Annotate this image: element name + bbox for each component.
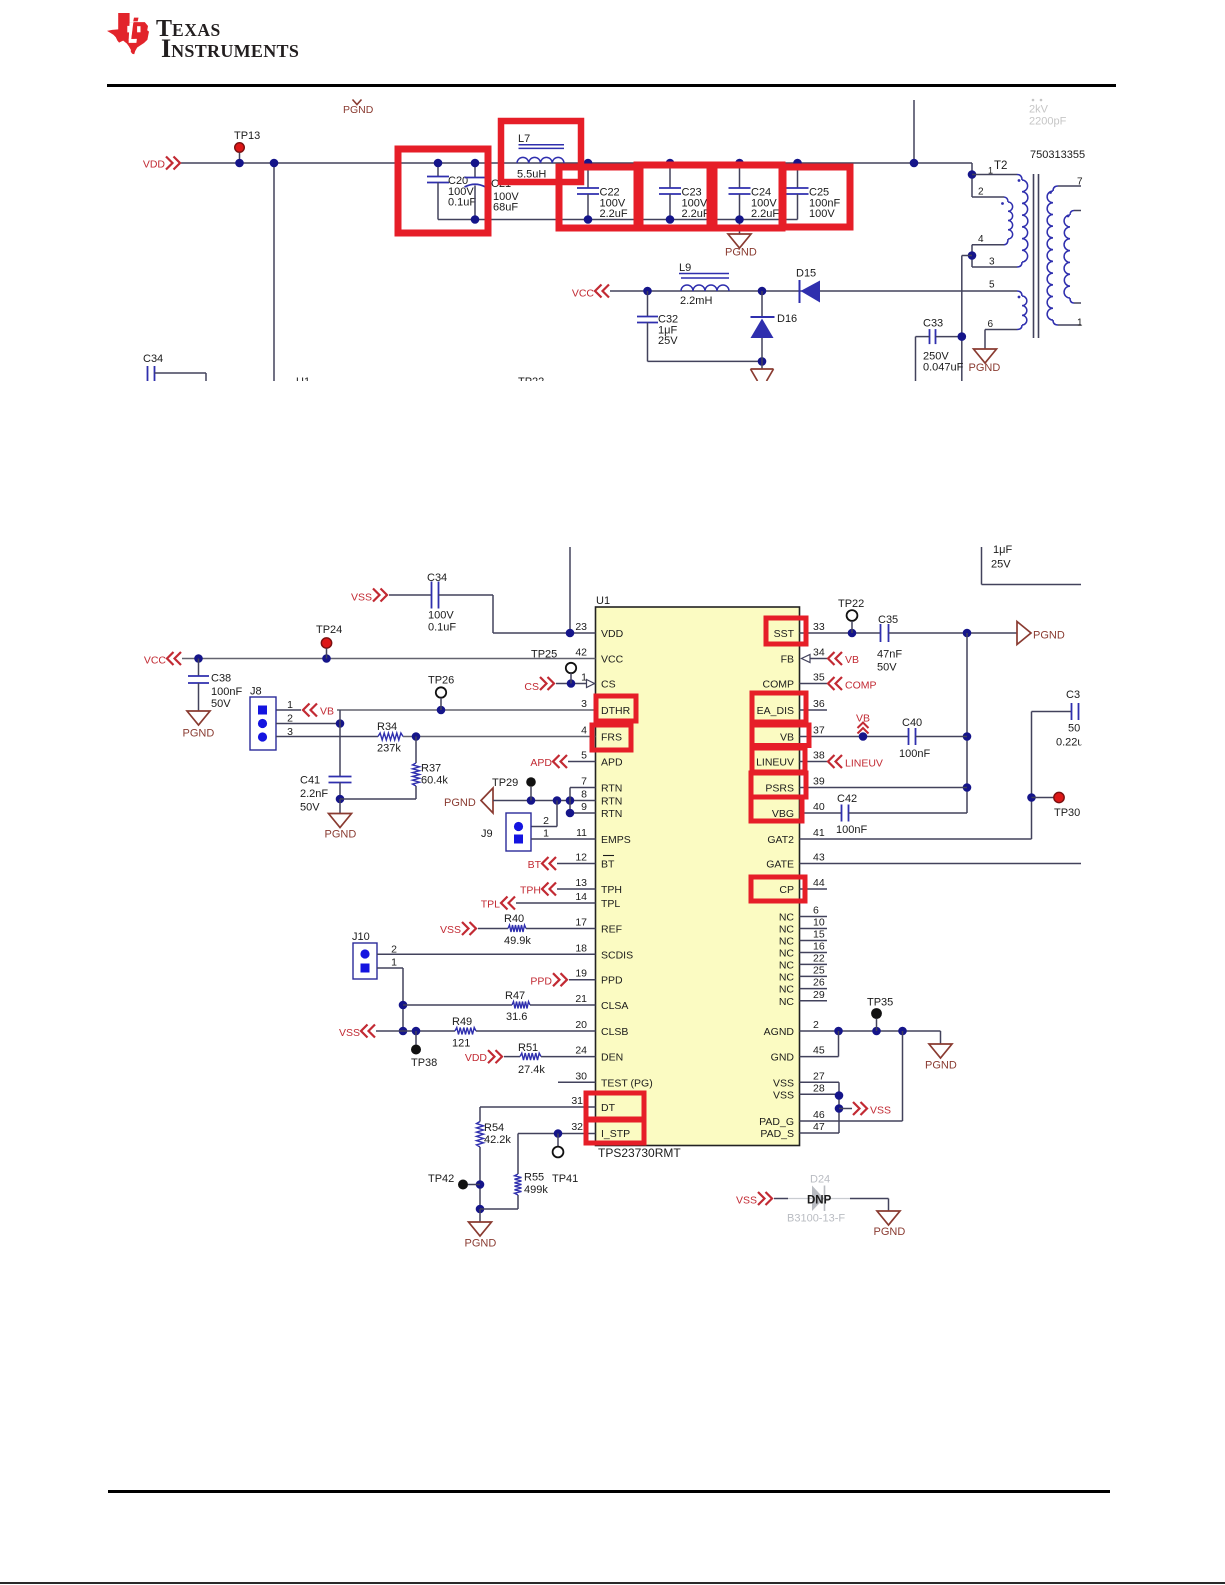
svg-text:45: 45 — [813, 1045, 825, 1057]
svg-text:24: 24 — [575, 1045, 587, 1057]
svg-text:J9: J9 — [481, 828, 493, 840]
svg-text:D16: D16 — [777, 313, 797, 325]
svg-text:NC: NC — [779, 948, 795, 960]
svg-text:100V: 100V — [809, 208, 835, 220]
svg-text:PSRS: PSRS — [765, 783, 794, 795]
svg-text:5: 5 — [989, 280, 995, 291]
svg-text:26: 26 — [813, 977, 825, 989]
svg-text:EA_DIS: EA_DIS — [757, 705, 794, 717]
svg-text:LINEUV: LINEUV — [756, 757, 794, 769]
svg-text:VSS: VSS — [773, 1077, 794, 1089]
svg-text:D15: D15 — [796, 268, 816, 280]
svg-text:PGND: PGND — [874, 1226, 906, 1238]
svg-text:TEST (PG): TEST (PG) — [601, 1077, 653, 1089]
svg-text:VSS: VSS — [736, 1195, 757, 1207]
svg-text:21: 21 — [575, 993, 587, 1005]
svg-text:30: 30 — [575, 1070, 587, 1082]
svg-text:TP38: TP38 — [411, 1057, 437, 1069]
svg-text:TP29: TP29 — [492, 777, 518, 789]
svg-text:GATE: GATE — [766, 859, 794, 871]
svg-text:PGND: PGND — [1033, 630, 1065, 642]
svg-text:CS: CS — [601, 679, 616, 691]
svg-text:2: 2 — [543, 815, 549, 827]
svg-text:R49: R49 — [452, 1016, 472, 1028]
svg-text:R55: R55 — [524, 1172, 544, 1184]
svg-text:44: 44 — [813, 877, 825, 889]
svg-text:C42: C42 — [837, 793, 857, 805]
svg-text:U1: U1 — [296, 376, 310, 388]
svg-text:35: 35 — [813, 672, 825, 684]
svg-text:100nF: 100nF — [836, 824, 867, 836]
svg-text:VCC: VCC — [572, 288, 595, 300]
svg-text:50V: 50V — [877, 662, 897, 674]
svg-text:2.2mH: 2.2mH — [680, 295, 712, 307]
svg-text:NC: NC — [779, 936, 795, 948]
svg-text:RTN: RTN — [601, 783, 622, 795]
svg-text:2.2nF: 2.2nF — [300, 788, 328, 800]
svg-text:R51: R51 — [518, 1042, 538, 1054]
svg-text:C3: C3 — [1066, 689, 1080, 701]
svg-text:23: 23 — [575, 621, 587, 633]
svg-text:TPL: TPL — [481, 899, 500, 911]
svg-text:499k: 499k — [524, 1184, 548, 1196]
svg-text:VSS: VSS — [773, 1089, 794, 1101]
svg-text:TPS23730RMT: TPS23730RMT — [598, 1146, 681, 1160]
svg-text:D24: D24 — [810, 1174, 830, 1186]
svg-text:4: 4 — [581, 725, 587, 737]
svg-text:29: 29 — [813, 989, 825, 1001]
svg-text:27.4k: 27.4k — [518, 1064, 545, 1076]
svg-text:EMPS: EMPS — [601, 834, 631, 846]
svg-text:C40: C40 — [902, 717, 922, 729]
svg-text:0.22u: 0.22u — [1056, 737, 1084, 749]
svg-text:TP22: TP22 — [518, 376, 544, 388]
svg-text:TP42: TP42 — [428, 1173, 454, 1185]
svg-text:VSS: VSS — [870, 1105, 891, 1117]
svg-text:TP25: TP25 — [531, 649, 557, 661]
svg-text:2.2uF: 2.2uF — [751, 208, 779, 220]
svg-text:C34: C34 — [427, 572, 447, 584]
svg-text:R37: R37 — [421, 763, 441, 775]
svg-text:TPH: TPH — [520, 885, 541, 897]
svg-text:2.2uF: 2.2uF — [682, 208, 710, 220]
svg-text:VSS: VSS — [440, 924, 461, 936]
svg-text:PPD: PPD — [530, 976, 552, 988]
svg-text:6: 6 — [813, 905, 819, 917]
svg-text:41: 41 — [813, 827, 825, 839]
svg-text:BT: BT — [601, 859, 615, 871]
svg-text:FB: FB — [781, 654, 794, 666]
svg-text:COMP: COMP — [845, 680, 877, 692]
svg-text:42.2k: 42.2k — [484, 1134, 511, 1146]
svg-text:VDD: VDD — [601, 628, 624, 640]
svg-text:68uF: 68uF — [493, 202, 518, 214]
svg-text:REF: REF — [601, 924, 622, 936]
svg-text:5: 5 — [581, 750, 587, 762]
svg-text:C33: C33 — [923, 318, 943, 330]
svg-text:COMP: COMP — [763, 679, 795, 691]
svg-text:42: 42 — [575, 647, 587, 659]
svg-text:U1: U1 — [596, 595, 610, 607]
svg-text:39: 39 — [813, 776, 825, 788]
svg-text:50V: 50V — [300, 802, 320, 814]
svg-text:2: 2 — [813, 1019, 819, 1031]
svg-text:TP24: TP24 — [316, 624, 342, 636]
svg-text:2: 2 — [287, 713, 293, 725]
svg-text:TPL: TPL — [601, 898, 620, 910]
svg-text:22: 22 — [813, 952, 825, 964]
svg-text:I_STP: I_STP — [601, 1128, 630, 1140]
svg-text:C41: C41 — [300, 775, 320, 787]
svg-text:PAD_G: PAD_G — [759, 1116, 794, 1128]
svg-text:VDD: VDD — [465, 1052, 488, 1064]
svg-text:0.1uF: 0.1uF — [448, 197, 476, 209]
svg-text:16: 16 — [813, 941, 825, 953]
svg-text:0.1uF: 0.1uF — [428, 622, 456, 634]
svg-text:J10: J10 — [352, 931, 370, 943]
svg-text:34: 34 — [813, 647, 825, 659]
svg-text:31: 31 — [571, 1095, 583, 1107]
svg-text:2.2uF: 2.2uF — [600, 208, 628, 220]
svg-text:PGND: PGND — [969, 362, 1001, 374]
svg-text:750313355: 750313355 — [1030, 149, 1085, 161]
svg-text:9: 9 — [581, 801, 587, 813]
svg-text:APD: APD — [530, 757, 552, 769]
svg-text:1: 1 — [543, 828, 549, 840]
svg-text:1: 1 — [988, 166, 993, 176]
svg-text:DNP: DNP — [807, 1195, 832, 1207]
svg-text:237k: 237k — [377, 743, 401, 755]
svg-text:33: 33 — [813, 621, 825, 633]
svg-text:R54: R54 — [484, 1122, 504, 1134]
svg-text:49.9k: 49.9k — [504, 935, 531, 947]
svg-text:7: 7 — [581, 776, 587, 788]
svg-text:1: 1 — [1077, 318, 1083, 329]
svg-text:100nF: 100nF — [211, 686, 242, 698]
svg-text:CLSB: CLSB — [601, 1026, 628, 1038]
svg-text:TP13: TP13 — [234, 130, 260, 142]
svg-text:3: 3 — [989, 257, 995, 268]
svg-text:PGND: PGND — [183, 728, 215, 740]
svg-text:50: 50 — [1068, 723, 1080, 735]
svg-text:PPD: PPD — [601, 975, 623, 987]
svg-text:13: 13 — [575, 877, 587, 889]
svg-text:CS: CS — [524, 681, 539, 693]
svg-text:47: 47 — [813, 1121, 825, 1133]
svg-text:2kV: 2kV — [1029, 104, 1049, 116]
svg-text:DTHR: DTHR — [601, 705, 631, 717]
svg-text:121: 121 — [452, 1038, 470, 1050]
svg-text:46: 46 — [813, 1109, 825, 1121]
svg-text:PAD_S: PAD_S — [760, 1128, 794, 1140]
svg-text:PGND: PGND — [343, 104, 374, 116]
svg-text:TP30: TP30 — [1054, 807, 1080, 819]
svg-text:VSS: VSS — [339, 1027, 360, 1039]
svg-text:DT: DT — [601, 1102, 616, 1114]
svg-text:11: 11 — [576, 827, 587, 839]
svg-text:20: 20 — [575, 1019, 587, 1031]
svg-text:40: 40 — [813, 801, 825, 813]
svg-text:TP41: TP41 — [552, 1173, 578, 1185]
svg-text:BT: BT — [528, 859, 542, 871]
svg-text:VB: VB — [320, 706, 334, 718]
svg-text:VBG: VBG — [772, 808, 794, 820]
svg-text:TP22: TP22 — [838, 598, 864, 610]
svg-text:NC: NC — [779, 971, 795, 983]
svg-text:NC: NC — [779, 984, 795, 996]
svg-text:1: 1 — [391, 957, 397, 969]
svg-text:6: 6 — [988, 319, 994, 330]
svg-text:R47: R47 — [505, 990, 525, 1002]
svg-text:CP: CP — [779, 884, 794, 896]
svg-text:RTN: RTN — [601, 796, 622, 808]
svg-text:17: 17 — [575, 917, 587, 929]
svg-text:VCC: VCC — [144, 655, 167, 667]
svg-text:60.4k: 60.4k — [421, 775, 448, 787]
svg-text:J8: J8 — [250, 686, 262, 698]
svg-text:TP35: TP35 — [867, 997, 893, 1009]
svg-text:47nF: 47nF — [877, 649, 902, 661]
svg-text:PGND: PGND — [444, 797, 476, 809]
svg-text:CLSA: CLSA — [601, 1000, 628, 1012]
svg-text:C35: C35 — [878, 614, 898, 626]
svg-text:SST: SST — [774, 628, 795, 640]
svg-text:3: 3 — [581, 698, 587, 710]
svg-text:7: 7 — [1077, 177, 1083, 188]
svg-text:PGND: PGND — [325, 829, 357, 841]
svg-text:VDD: VDD — [143, 159, 166, 171]
svg-text:SCDIS: SCDIS — [601, 949, 633, 961]
svg-text:25V: 25V — [658, 335, 678, 347]
svg-text:18: 18 — [575, 942, 587, 954]
svg-text:VB: VB — [780, 732, 794, 744]
svg-text:GND: GND — [771, 1052, 795, 1064]
svg-text:GAT2: GAT2 — [767, 834, 794, 846]
svg-text:37: 37 — [813, 725, 825, 737]
svg-text:VSS: VSS — [351, 592, 372, 604]
svg-text:R40: R40 — [504, 913, 524, 925]
svg-text:4: 4 — [978, 234, 984, 245]
svg-text:L9: L9 — [679, 262, 691, 274]
svg-text:36: 36 — [813, 698, 825, 710]
svg-text:PGND: PGND — [465, 1238, 497, 1250]
svg-text:32: 32 — [571, 1121, 583, 1133]
svg-text:TPH: TPH — [601, 884, 622, 896]
svg-text:NC: NC — [779, 924, 795, 936]
svg-text:31.6: 31.6 — [506, 1011, 527, 1023]
svg-text:PGND: PGND — [725, 247, 757, 259]
svg-text:RTN: RTN — [601, 808, 622, 820]
svg-text:100nF: 100nF — [899, 748, 930, 760]
svg-text:19: 19 — [575, 968, 587, 980]
svg-text:L7: L7 — [518, 133, 530, 145]
svg-text:DEN: DEN — [601, 1052, 623, 1064]
svg-text:1μF: 1μF — [993, 544, 1012, 556]
svg-text:28: 28 — [813, 1082, 825, 1094]
svg-text:12: 12 — [575, 852, 587, 864]
svg-text:FRS: FRS — [601, 732, 622, 744]
svg-text:NC: NC — [779, 959, 795, 971]
svg-text:APD: APD — [601, 757, 623, 769]
svg-text:43: 43 — [813, 852, 825, 864]
svg-text:0.047uF: 0.047uF — [923, 362, 964, 374]
svg-text:TP26: TP26 — [428, 675, 454, 687]
svg-text:38: 38 — [813, 750, 825, 762]
svg-text:5.5uH: 5.5uH — [517, 169, 546, 181]
svg-text:15: 15 — [813, 929, 825, 941]
svg-text:100V: 100V — [428, 610, 454, 622]
svg-text:25V: 25V — [991, 559, 1011, 571]
svg-text:AGND: AGND — [764, 1026, 795, 1038]
svg-text:10: 10 — [813, 917, 825, 929]
svg-text:2: 2 — [978, 187, 984, 198]
svg-text:T2: T2 — [994, 160, 1007, 172]
svg-text:LINEUV: LINEUV — [845, 758, 883, 770]
svg-text:8: 8 — [581, 789, 587, 801]
svg-text:VCC: VCC — [601, 654, 624, 666]
svg-text:C34: C34 — [143, 353, 163, 365]
svg-text:NC: NC — [779, 996, 795, 1008]
svg-text:VB: VB — [845, 654, 859, 666]
svg-text:B3100-13-F: B3100-13-F — [787, 1213, 845, 1225]
svg-text:25: 25 — [813, 964, 825, 976]
svg-text:NC: NC — [779, 912, 795, 924]
svg-text:1: 1 — [287, 699, 293, 711]
svg-text:50V: 50V — [211, 698, 231, 710]
svg-text:14: 14 — [575, 891, 587, 903]
svg-text:2200pF: 2200pF — [1029, 116, 1067, 128]
svg-text:C38: C38 — [211, 673, 231, 685]
svg-text:27: 27 — [813, 1070, 825, 1082]
svg-text:R34: R34 — [377, 721, 397, 733]
svg-text:PGND: PGND — [925, 1060, 957, 1072]
